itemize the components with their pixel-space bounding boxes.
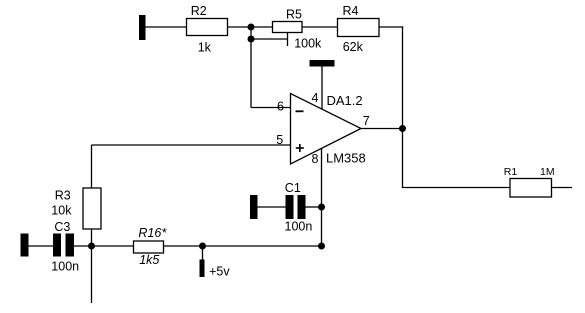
svg-text:7: 7 xyxy=(363,114,370,128)
svg-text:10k: 10k xyxy=(51,204,72,218)
svg-text:LM358: LM358 xyxy=(326,151,366,166)
svg-text:C1: C1 xyxy=(285,181,301,195)
svg-text:100k: 100k xyxy=(294,37,322,51)
svg-text:62k: 62k xyxy=(343,40,364,54)
svg-text:R5: R5 xyxy=(286,8,302,22)
svg-text:8: 8 xyxy=(312,152,319,166)
svg-text:1M: 1M xyxy=(540,166,555,178)
svg-text:C3: C3 xyxy=(54,220,70,234)
svg-text:100n: 100n xyxy=(51,260,79,274)
svg-text:1k5: 1k5 xyxy=(139,253,159,267)
svg-text:6: 6 xyxy=(277,99,284,113)
svg-text:R3: R3 xyxy=(55,189,71,203)
svg-text:DA1.2: DA1.2 xyxy=(327,93,363,108)
svg-text:R2: R2 xyxy=(191,4,207,18)
svg-text:+5v: +5v xyxy=(209,265,230,279)
svg-text:1k: 1k xyxy=(198,41,212,55)
svg-text:4: 4 xyxy=(312,91,319,105)
svg-text:R4: R4 xyxy=(343,4,359,18)
svg-text:5: 5 xyxy=(276,133,283,147)
svg-text:R16*: R16* xyxy=(138,226,167,240)
svg-text:R1: R1 xyxy=(504,166,518,178)
svg-text:100n: 100n xyxy=(285,220,313,234)
